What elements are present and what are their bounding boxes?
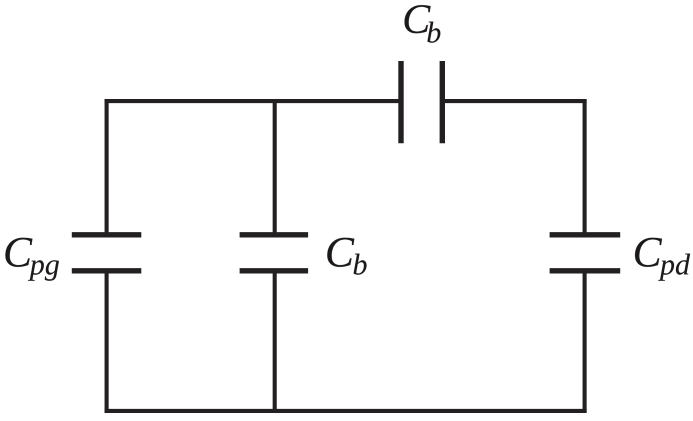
label C_b (top capacitor) — [405, 5, 441, 43]
wire bottom — [105, 409, 587, 413]
wire right vertical lower — [583, 271, 587, 413]
capacitor C_pd (right shunt, horizontal plates) — [550, 235, 621, 271]
capacitor C_b top (series, vertical plates) — [401, 61, 442, 143]
wire right vertical upper — [583, 99, 587, 235]
capacitor C_pg (left shunt, horizontal plates) — [72, 235, 142, 271]
wire left vertical lower — [105, 271, 109, 413]
label C_pg (left capacitor) — [5, 238, 58, 281]
wire middle vertical upper — [273, 101, 277, 235]
capacitor C_b middle (shunt, horizontal plates) — [240, 235, 309, 271]
label C_b (middle capacitor) — [327, 238, 366, 275]
wire top-right segment — [442, 99, 587, 103]
wire left vertical upper — [105, 99, 109, 235]
label C_pd (right capacitor) — [635, 238, 690, 281]
wire top-left segment — [105, 99, 402, 103]
wire middle vertical lower — [273, 271, 277, 411]
